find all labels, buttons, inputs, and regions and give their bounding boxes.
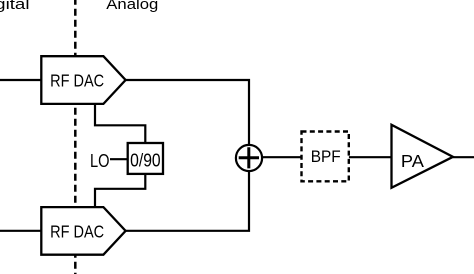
wire RF DAC U1 output to summer — [125, 80, 249, 146]
wire 0/90 to RF DAC U2 clock — [95, 174, 145, 207]
svg-text:PA: PA — [401, 151, 424, 171]
svg-text:LO: LO — [90, 150, 110, 171]
svg-text:Digital: Digital — [0, 0, 30, 13]
wire input to RF DAC U1 — [0, 79, 41, 81]
svg-text:0/90: 0/90 — [130, 150, 161, 170]
RF DAC U2 (bottom) — [41, 207, 125, 255]
summer node — [236, 145, 262, 171]
power amplifier PA — [392, 125, 454, 188]
digital/analog boundary dashed line — [74, 0, 77, 274]
wire RF DAC U2 output to summer — [126, 169, 249, 231]
wire LO to 0/90 — [110, 158, 128, 160]
wire BPF to PA — [349, 156, 392, 158]
RF DAC U1 (top) — [41, 56, 125, 104]
phase splitter 0/90 — [128, 143, 163, 174]
wire input to RF DAC U2 — [0, 230, 41, 232]
wire summer to BPF — [261, 156, 301, 158]
svg-text:Analog: Analog — [106, 0, 158, 13]
wire 0/90 to RF DAC U1 clock — [95, 104, 145, 144]
svg-text:BPF: BPF — [311, 148, 341, 166]
band-pass filter BPF — [302, 132, 349, 182]
wire PA output — [453, 156, 474, 158]
svg-text:RF DAC: RF DAC — [50, 71, 104, 91]
svg-text:RF DAC: RF DAC — [50, 221, 104, 241]
